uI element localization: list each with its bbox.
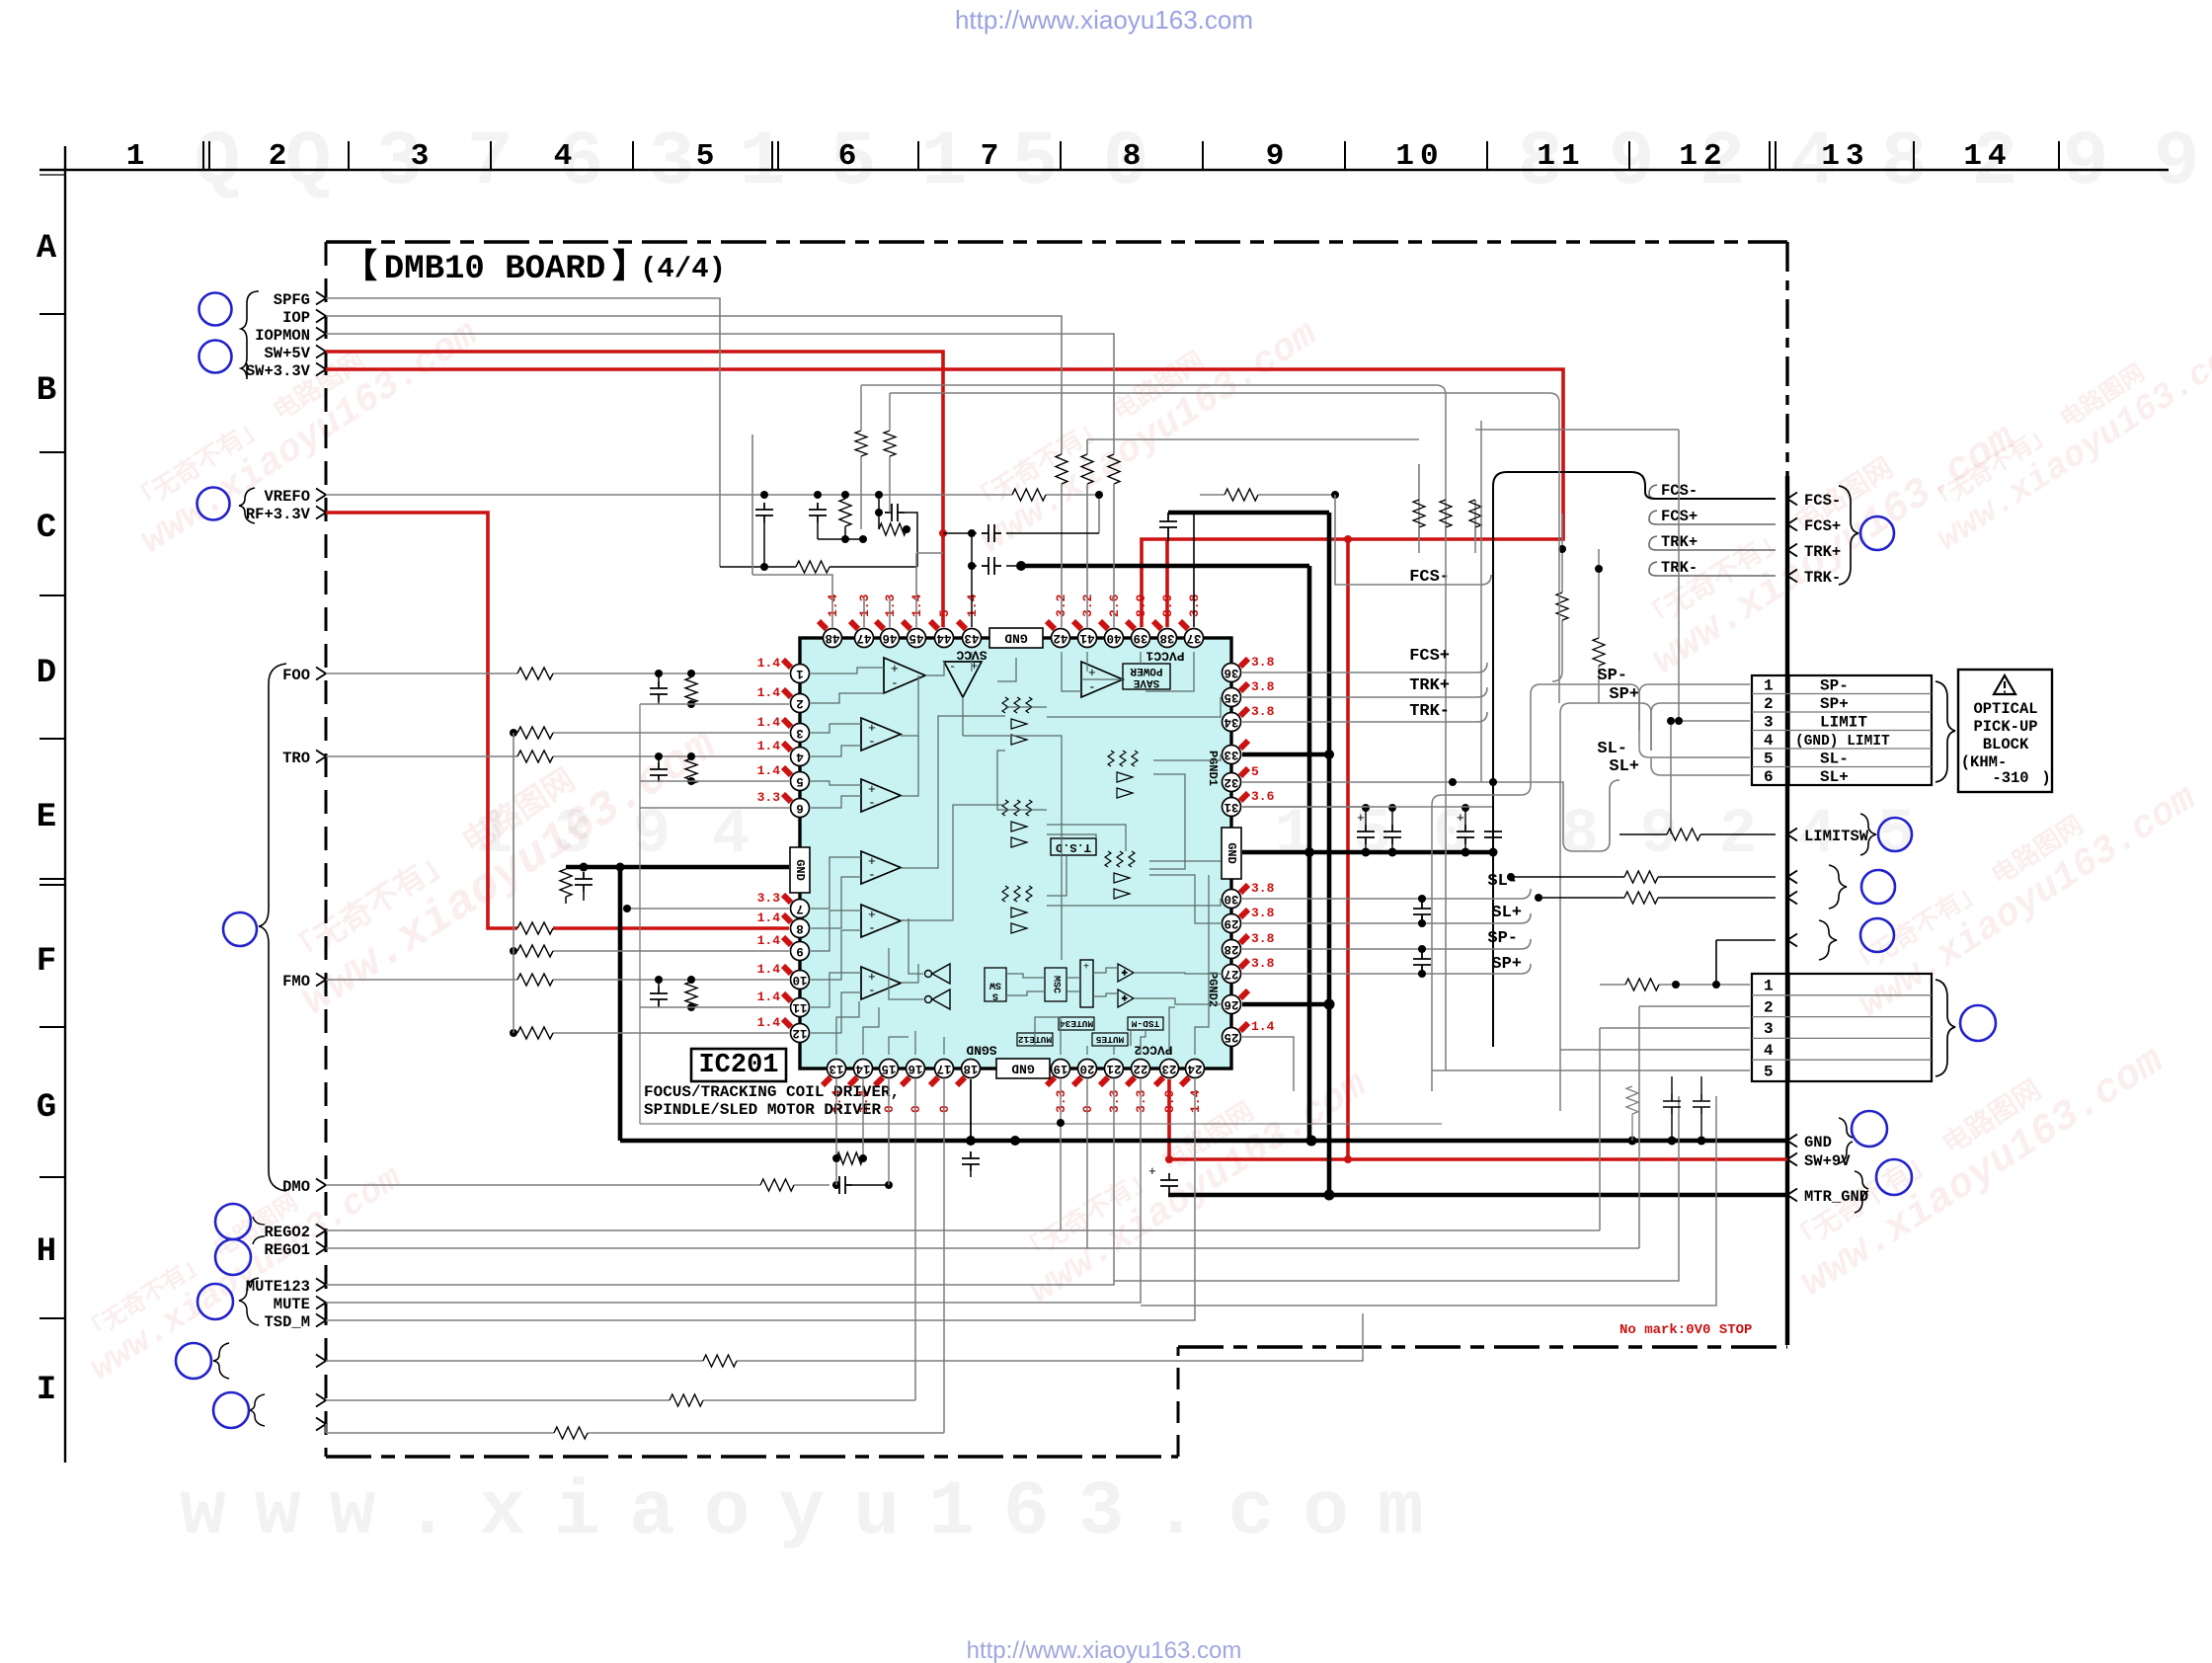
resistor arrow1442 bbox=[554, 1427, 588, 1439]
svg-text:(GND) LIMIT: (GND) LIMIT bbox=[1795, 734, 1890, 750]
wire vert resistor x1619 bbox=[1598, 549, 1600, 703]
IC201 MUTE5 box bbox=[1092, 1033, 1128, 1046]
svg-text:LIMIT: LIMIT bbox=[1820, 714, 1867, 732]
wire vertical x1530 bbox=[1510, 691, 1512, 877]
watermark faint digits middle row bbox=[475, 800, 1915, 871]
svg-text:SP+: SP+ bbox=[1820, 695, 1849, 713]
svg-text:D: D bbox=[37, 655, 56, 692]
svg-text:SAVE: SAVE bbox=[1133, 676, 1159, 688]
IC201 TSD-M box bbox=[1128, 1017, 1163, 1030]
wire pin30 SL- hook bbox=[1242, 889, 1531, 899]
IC201 MUTE12 box bbox=[1017, 1033, 1053, 1046]
wire box1 SP- bbox=[1639, 684, 1750, 731]
svg-text:1: 1 bbox=[1764, 978, 1774, 995]
svg-text:MUTE123: MUTE123 bbox=[246, 1278, 310, 1296]
svg-text:6: 6 bbox=[1764, 768, 1774, 786]
IC201 internal op-amp A5 bbox=[861, 905, 901, 937]
wire pin27 SP+ hook bbox=[1242, 964, 1531, 974]
IC201 internal MSC box bbox=[1045, 968, 1066, 1001]
IC201 pin 45 bbox=[908, 629, 926, 648]
connector circle CN gnd bbox=[1852, 1111, 1887, 1147]
brace left group1 bbox=[241, 291, 259, 379]
svg-text:25: 25 bbox=[1224, 1030, 1238, 1044]
svg-text:SP+: SP+ bbox=[1609, 685, 1639, 704]
svg-text:13: 13 bbox=[1821, 139, 1869, 174]
IC201 internal driver cell 1 bbox=[1002, 697, 1032, 745]
wire right resistors top feeds bbox=[1419, 527, 1475, 553]
svg-text:10: 10 bbox=[792, 973, 807, 987]
resistor pin13-14 bbox=[835, 1136, 837, 1146]
svg-text:SP-: SP- bbox=[1820, 677, 1849, 695]
connector box CN lower 5pin bbox=[1752, 974, 1932, 1081]
svg-text:1.4: 1.4 bbox=[757, 715, 781, 730]
svg-text:28: 28 bbox=[1224, 942, 1238, 956]
svg-text:SPINDLE/SLED MOTOR DRIVER: SPINDLE/SLED MOTOR DRIVER bbox=[644, 1101, 881, 1119]
svg-text:SPFG: SPFG bbox=[274, 291, 310, 309]
capacitor pins2930 bbox=[1418, 895, 1426, 903]
wire pin45 top bbox=[916, 553, 943, 627]
wire red vertical SW+9V feed bbox=[1346, 539, 1350, 1159]
wire box2 feeds lower bbox=[1432, 1050, 1560, 1111]
wire thick top-right net A bbox=[1021, 566, 1309, 1141]
svg-text:4: 4 bbox=[712, 800, 750, 871]
svg-text:42: 42 bbox=[1053, 631, 1067, 645]
svg-text:2: 2 bbox=[1719, 800, 1757, 871]
svg-text:): ) bbox=[2041, 769, 2050, 787]
wire bundle right lower1 bbox=[1061, 1229, 1600, 1231]
IC201 internal driver cell 4 bbox=[1105, 851, 1135, 899]
IC201 pin 20 bbox=[1078, 1060, 1097, 1078]
svg-text:5: 5 bbox=[1764, 1064, 1774, 1081]
wire box1 SP+ bbox=[1651, 703, 1750, 751]
svg-text:1.4: 1.4 bbox=[757, 739, 781, 753]
svg-text:TRK+: TRK+ bbox=[1409, 676, 1450, 695]
IC201 internal op-amp A1 bbox=[884, 658, 925, 693]
svg-text:29: 29 bbox=[1224, 916, 1238, 930]
IC201 MUTE34 box bbox=[1059, 1017, 1094, 1030]
wire pin48 top bbox=[752, 435, 832, 627]
svg-text:SP-: SP- bbox=[1597, 667, 1627, 685]
ruler left line bbox=[64, 146, 66, 1463]
resistor gnd cluster left bbox=[560, 869, 572, 897]
svg-text:SP+: SP+ bbox=[1491, 955, 1522, 974]
svg-text:-: - bbox=[868, 920, 876, 935]
wire inner box bottom bbox=[640, 1123, 1442, 1125]
svg-text:REGO1: REGO1 bbox=[264, 1241, 310, 1259]
resistor arrow1378 bbox=[703, 1355, 737, 1367]
svg-text:SW+5V: SW+5V bbox=[264, 345, 310, 362]
svg-text:Q: Q bbox=[195, 119, 241, 206]
wire REGO1 run bbox=[326, 1079, 1087, 1248]
brace left group2 bbox=[239, 488, 255, 523]
wire MUTE123 run bbox=[326, 1079, 1114, 1285]
IC201 pin 43 bbox=[963, 629, 982, 648]
connector circle CN r2 bbox=[1861, 870, 1895, 904]
svg-text:8: 8 bbox=[796, 921, 804, 935]
resistor gnd rail r1 bbox=[1638, 1086, 1640, 1141]
IC201 internal driver cell 2 bbox=[1108, 751, 1138, 798]
svg-text:8: 8 bbox=[1123, 139, 1142, 174]
IC201 pin 2 bbox=[791, 694, 810, 713]
IC201 pin 19 bbox=[1052, 1060, 1070, 1078]
svg-text:FCS-: FCS- bbox=[1804, 492, 1841, 510]
wire box1 row4 bbox=[1639, 739, 1750, 790]
capacitor pin10 cluster bbox=[658, 980, 660, 987]
wire pin34 to TRK- bbox=[1242, 712, 1487, 722]
wire bundle right lower2 bbox=[1087, 1247, 1639, 1249]
resistor pin46 bbox=[889, 456, 891, 513]
board outline bottom dash-dot upper bbox=[1178, 1345, 1787, 1348]
svg-text:I: I bbox=[37, 1372, 56, 1409]
svg-text:6: 6 bbox=[838, 139, 857, 174]
svg-text:1: 1 bbox=[921, 119, 968, 206]
wire pin3 bbox=[513, 732, 789, 734]
svg-text:IOP: IOP bbox=[282, 309, 310, 327]
svg-text:3.3: 3.3 bbox=[757, 790, 781, 805]
left entry REGO2/REGO1 bbox=[264, 1224, 310, 1259]
svg-text:-: - bbox=[868, 867, 876, 882]
wire pin29 SL+ hook bbox=[1242, 913, 1531, 923]
IC201 pin 14 bbox=[854, 1060, 873, 1078]
svg-text:+: + bbox=[1122, 994, 1127, 1004]
svg-text:PGND1: PGND1 bbox=[1206, 751, 1220, 786]
svg-text:12: 12 bbox=[1679, 139, 1727, 174]
svg-text:FCS-: FCS- bbox=[1409, 568, 1450, 587]
IC201 pin 30 bbox=[1223, 890, 1241, 909]
wire pin31 run bbox=[1242, 806, 1366, 808]
IC201 T.S.D box bbox=[1051, 838, 1096, 855]
IC201 pin 48 bbox=[824, 629, 842, 648]
brace box2 bbox=[1935, 980, 1955, 1076]
board outline right dash-dot upper bbox=[1785, 242, 1788, 476]
svg-text:8: 8 bbox=[1881, 119, 1928, 206]
svg-text:H: H bbox=[37, 1233, 56, 1271]
IC201 internal op-amp A6 bbox=[861, 967, 901, 999]
brace mtr bbox=[1855, 1171, 1868, 1213]
svg-text:+: + bbox=[891, 662, 899, 676]
svg-text:3.8: 3.8 bbox=[1251, 679, 1275, 694]
connector circle CN i2 bbox=[213, 1392, 249, 1428]
svg-text:IC201: IC201 bbox=[698, 1051, 778, 1080]
IC201 pin 32 bbox=[1223, 773, 1241, 792]
svg-text:34: 34 bbox=[1224, 715, 1239, 729]
svg-text:9: 9 bbox=[796, 944, 804, 958]
brace rego2 bbox=[253, 1217, 265, 1244]
svg-text:A: A bbox=[37, 230, 57, 268]
capacitor gnd cluster left bbox=[575, 872, 592, 892]
svg-text:14: 14 bbox=[855, 1062, 871, 1075]
capacitor gnd rail c1 bbox=[1663, 1094, 1681, 1114]
svg-text:GND: GND bbox=[1011, 1062, 1035, 1076]
svg-text:3: 3 bbox=[649, 119, 695, 206]
IC201 pin 44 bbox=[935, 629, 954, 648]
watermark pink stamps bbox=[116, 285, 487, 563]
IC201 pin 47 bbox=[855, 629, 874, 648]
resistor pin4 cluster bbox=[690, 756, 692, 758]
IC201 pin 37 bbox=[1185, 629, 1204, 648]
wire pin14 stub down bbox=[862, 1079, 864, 1158]
IC201 internal wiring mesh bbox=[811, 652, 1221, 1055]
brace arrow1378 bbox=[213, 1343, 229, 1379]
resistor arrow888 bbox=[1624, 871, 1658, 883]
svg-text:TRO: TRO bbox=[282, 750, 310, 767]
wire pin43 top caps bbox=[943, 533, 1099, 627]
resistor VREFO bbox=[1012, 489, 1046, 501]
svg-text:18: 18 bbox=[963, 1062, 978, 1075]
wire SPFG lower run bbox=[720, 566, 917, 568]
brace right fcs group bbox=[1839, 486, 1858, 585]
wire arrow1378 run bbox=[326, 1313, 1363, 1361]
IC201 internal buffer bar bbox=[1080, 960, 1093, 1007]
svg-text:17: 17 bbox=[936, 1062, 951, 1075]
IC201 internal inverter pair bbox=[925, 964, 951, 1009]
svg-text:13: 13 bbox=[829, 1062, 843, 1075]
svg-text:22: 22 bbox=[1133, 1062, 1147, 1075]
svg-text:GND: GND bbox=[793, 859, 807, 881]
connector circle CN sw5v bbox=[199, 341, 232, 373]
svg-text:27: 27 bbox=[1224, 967, 1238, 981]
wire LIMITSW bbox=[1619, 833, 1776, 835]
svg-text:39: 39 bbox=[1133, 631, 1147, 645]
wire thick pin26 stub bbox=[1242, 1002, 1329, 1007]
wire SW+3.3V red net bbox=[326, 369, 1563, 627]
svg-text:MUTE5: MUTE5 bbox=[1095, 1034, 1124, 1045]
IC201 pin 16 bbox=[907, 1060, 925, 1078]
connector circle CN limitsw bbox=[1878, 818, 1912, 851]
svg-text:3.3: 3.3 bbox=[757, 891, 781, 906]
resistor hpair2 bbox=[878, 513, 880, 529]
svg-text:3: 3 bbox=[1764, 714, 1774, 732]
svg-text:15: 15 bbox=[881, 1062, 896, 1075]
svg-text:-: - bbox=[868, 734, 876, 749]
IC201 pin 22 bbox=[1132, 1060, 1150, 1078]
svg-text:(4/4): (4/4) bbox=[640, 253, 726, 285]
wire vertical x648 bbox=[639, 704, 641, 1124]
wire DMO bbox=[326, 1184, 829, 1186]
resistor pin9 bbox=[517, 945, 553, 957]
wire SPFG bbox=[326, 298, 720, 567]
left entry group SPFG/IOP/IOPMON/SW+5V/SW+3.3V bbox=[246, 291, 311, 380]
connector circle CN i1 bbox=[176, 1343, 211, 1379]
wire cap top feed bbox=[1242, 806, 1493, 808]
connector circle CN mtr bbox=[1876, 1159, 1912, 1195]
svg-text:TSD_M: TSD_M bbox=[264, 1313, 310, 1331]
svg-text:-: - bbox=[868, 795, 876, 810]
svg-text:24: 24 bbox=[1187, 1062, 1203, 1075]
svg-text:1: 1 bbox=[126, 139, 145, 174]
svg-text:5: 5 bbox=[1251, 764, 1259, 779]
wire vertical bus x520 bbox=[513, 733, 514, 1033]
wire pin2 bbox=[640, 703, 789, 705]
resistor FOO bbox=[517, 668, 553, 679]
connector circle CN fcs bbox=[1860, 516, 1894, 550]
svg-text:-310: -310 bbox=[1992, 769, 2028, 787]
svg-text:9: 9 bbox=[1609, 119, 1655, 206]
svg-text:http://www.xiaoyu163.com: http://www.xiaoyu163.com bbox=[967, 1637, 1242, 1663]
wire thick net B pin37 bbox=[1168, 513, 1329, 754]
svg-text:MUTE: MUTE bbox=[274, 1296, 310, 1313]
svg-text:PICK-UP: PICK-UP bbox=[1973, 718, 2037, 736]
svg-text:IOPMON: IOPMON bbox=[255, 327, 310, 345]
svg-text:26: 26 bbox=[1224, 997, 1238, 1011]
resistor pin10 cluster bbox=[690, 980, 692, 982]
svg-text:5: 5 bbox=[696, 139, 715, 174]
IC201 internal op-amp right bbox=[1081, 662, 1123, 697]
IC201 pin 36 bbox=[1223, 664, 1241, 682]
svg-text:-: - bbox=[891, 675, 899, 690]
wire FCS- hook label bbox=[1481, 575, 1491, 585]
wire RF+3.3V red net bbox=[326, 513, 789, 928]
IC201 pin 3 bbox=[791, 724, 810, 743]
resistor spfg run bbox=[796, 561, 829, 573]
svg-text:33: 33 bbox=[1224, 748, 1238, 761]
svg-text:No mark:0V0 STOP: No mark:0V0 STOP bbox=[1619, 1322, 1752, 1338]
IC201 pin 4 bbox=[791, 748, 810, 766]
resistor arrow909 bbox=[1624, 892, 1658, 904]
brace box1 bbox=[1935, 681, 1955, 782]
svg-text:45: 45 bbox=[908, 631, 923, 645]
svg-text:3.8: 3.8 bbox=[1251, 881, 1275, 896]
wire top black U-net bbox=[1493, 472, 1776, 1047]
svg-text:http://www.xiaoyu163.com: http://www.xiaoyu163.com bbox=[955, 5, 1253, 35]
IC201 internal op-amp A4 bbox=[861, 851, 901, 884]
IC201 top GND bar bbox=[989, 628, 1043, 648]
svg-text:B: B bbox=[37, 372, 56, 410]
right FCS/TRK terminal rows bbox=[1661, 482, 1841, 587]
svg-text:5: 5 bbox=[1012, 119, 1059, 206]
svg-text:SL+: SL+ bbox=[1820, 768, 1849, 786]
ruler top ticks bbox=[203, 141, 2059, 170]
svg-text:4: 4 bbox=[1764, 1042, 1774, 1060]
svg-text:SP-: SP- bbox=[1487, 929, 1518, 948]
svg-text:PVCC2: PVCC2 bbox=[1134, 1043, 1172, 1058]
svg-text:TRK+: TRK+ bbox=[1804, 543, 1841, 561]
svg-text:MUTE34: MUTE34 bbox=[1060, 1018, 1094, 1029]
svg-text:21: 21 bbox=[1106, 1062, 1121, 1075]
capacitor pin43a bbox=[982, 524, 1001, 542]
capacitor right4 bbox=[1484, 825, 1502, 844]
svg-text:3: 3 bbox=[1764, 1020, 1774, 1038]
svg-text:GND: GND bbox=[1004, 631, 1028, 646]
resistor vrefo r2 bbox=[844, 495, 846, 499]
capacitor pins2728 bbox=[1418, 945, 1426, 953]
svg-text:41: 41 bbox=[1079, 631, 1094, 645]
svg-text:31: 31 bbox=[1224, 800, 1238, 814]
capacitor right2 bbox=[1383, 825, 1401, 844]
resistor DMO bbox=[760, 1179, 794, 1191]
svg-text:2: 2 bbox=[1764, 695, 1774, 713]
wire box1 LIMIT row3 bbox=[1475, 430, 1750, 721]
ruler numbers bbox=[126, 139, 2013, 174]
IC201 pin 33 bbox=[1223, 746, 1241, 764]
svg-text:+: + bbox=[1083, 963, 1089, 974]
svg-text:5: 5 bbox=[796, 774, 804, 788]
svg-text:4: 4 bbox=[796, 750, 804, 763]
wire box1 SL+ bbox=[1651, 758, 1750, 775]
IC201 pin 5 bbox=[791, 772, 810, 791]
IC201 internal comparator down bbox=[944, 662, 982, 697]
capacitor vrefo c1 bbox=[755, 503, 773, 522]
IC201 pin 46 bbox=[881, 629, 900, 648]
svg-text:3: 3 bbox=[411, 139, 430, 174]
op-amp IC IC201 body bbox=[800, 638, 1231, 1069]
svg-text:MSC: MSC bbox=[1051, 976, 1062, 993]
svg-text:F: F bbox=[37, 943, 56, 981]
capacitor pin1 cluster bbox=[658, 673, 660, 681]
svg-text:1.4: 1.4 bbox=[757, 656, 781, 671]
wire FOO to pin1 bbox=[326, 673, 789, 674]
svg-text:1.4: 1.4 bbox=[757, 1015, 781, 1030]
svg-text:6: 6 bbox=[796, 801, 804, 815]
wire box2 row5 bbox=[1432, 1069, 1750, 1071]
svg-text:1.4: 1.4 bbox=[757, 933, 781, 948]
svg-text:10: 10 bbox=[1395, 139, 1444, 174]
svg-text:3.8: 3.8 bbox=[1251, 704, 1275, 719]
IC201 pin 42 bbox=[1052, 629, 1070, 648]
wire pin32 run bbox=[1242, 780, 1619, 851]
right plain arrows bbox=[1787, 871, 1797, 884]
wire SL+ long vertical bbox=[1560, 703, 1651, 1111]
wire pin12 bbox=[513, 1032, 789, 1034]
svg-text:BLOCK: BLOCK bbox=[1983, 736, 2029, 753]
resistor TRO bbox=[517, 751, 553, 762]
wire pin16 down then left bbox=[326, 1079, 915, 1400]
wire SL- long vertical bbox=[1432, 684, 1639, 1091]
wire FMO to pin10 bbox=[326, 979, 789, 981]
svg-text:FOO: FOO bbox=[282, 667, 310, 684]
svg-text:14: 14 bbox=[1963, 139, 2012, 174]
wire pin17 down then left bbox=[326, 1079, 944, 1433]
svg-text:1.4: 1.4 bbox=[757, 911, 781, 925]
svg-text:2: 2 bbox=[796, 696, 804, 710]
svg-text:OPTICAL: OPTICAL bbox=[1973, 700, 2037, 718]
wire arrow909 bbox=[1539, 897, 1776, 899]
wire REGO2 run bbox=[326, 1079, 1061, 1230]
capacitor pin4 cluster bbox=[658, 756, 660, 762]
connector circle CN r3 bbox=[1860, 918, 1894, 952]
wire thick pin33 net bbox=[1242, 754, 1329, 1195]
svg-text:+: + bbox=[1457, 811, 1464, 826]
svg-text:【 DMB10 BOARD 】: 【 DMB10 BOARD 】 bbox=[344, 248, 646, 288]
connector circle CN spfg bbox=[199, 293, 232, 326]
IC201 pin 26 bbox=[1223, 995, 1241, 1014]
svg-text:SW: SW bbox=[989, 980, 1001, 990]
IC201 bottom GND bar bbox=[996, 1059, 1050, 1078]
svg-text:FOCUS/TRACKING COIL DRIVER,: FOCUS/TRACKING COIL DRIVER, bbox=[644, 1083, 900, 1101]
IC201 internal op-amp A3 bbox=[861, 779, 901, 812]
svg-text:LIMITSW: LIMITSW bbox=[1804, 828, 1869, 845]
brace mute group bbox=[239, 1278, 259, 1325]
svg-text:-: - bbox=[868, 983, 876, 997]
wire arrow888 bbox=[1511, 876, 1776, 878]
svg-text:16: 16 bbox=[908, 1062, 922, 1075]
wire SP- feed to box1 bbox=[1629, 691, 1639, 770]
wire pin25 run bbox=[1242, 1037, 1294, 1091]
resistor LIMITSW bbox=[1667, 829, 1700, 840]
svg-text:+: + bbox=[1122, 969, 1127, 979]
board outline step dashed bbox=[1177, 1347, 1180, 1457]
IC201 pin 17 bbox=[935, 1060, 954, 1078]
svg-text:37: 37 bbox=[1186, 631, 1201, 645]
IC201 pin 25 bbox=[1223, 1028, 1241, 1047]
IC201 pin 23 bbox=[1160, 1060, 1179, 1078]
wire box2 row4 bbox=[1560, 1049, 1750, 1051]
wire FCS- feed vertical bbox=[1335, 495, 1481, 585]
wire pin47 top bbox=[863, 597, 865, 627]
connector box CN optical 6pin bbox=[1752, 675, 1932, 785]
svg-text:MTR_GND: MTR_GND bbox=[1804, 1188, 1868, 1206]
wire LIMIT feed vertical bbox=[1670, 721, 1672, 834]
